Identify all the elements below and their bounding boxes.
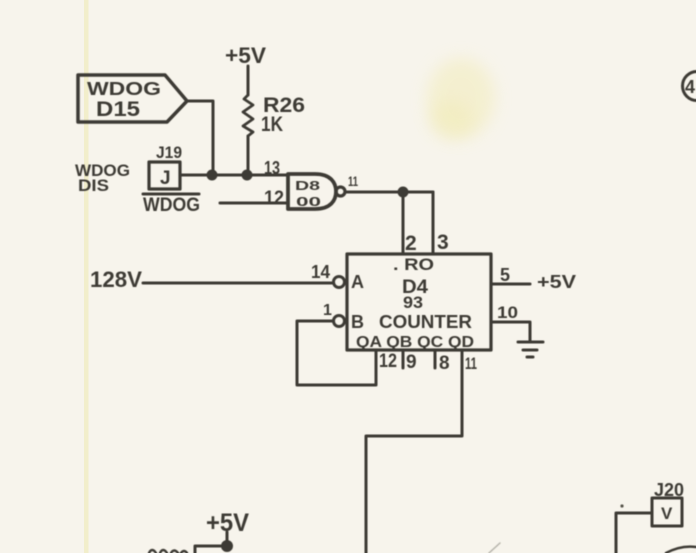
- feedback wire QA to B: [297, 321, 376, 385]
- pin 9 tick: [402, 350, 405, 368]
- wire NAND pin12 input: [220, 202, 288, 205]
- pin 8 tick: [434, 350, 437, 368]
- svg-text:2: 2: [405, 232, 417, 255]
- wire to pin3: [432, 192, 435, 254]
- wire flag point to corner: [187, 101, 213, 175]
- counter D4 box: [347, 254, 491, 350]
- svg-text:DIS: DIS: [78, 176, 109, 195]
- svg-text:9: 9: [406, 352, 417, 373]
- junction dot A: [208, 171, 216, 179]
- WDOG overline: [143, 193, 199, 196]
- pencil dot near J20: [620, 504, 623, 507]
- wire resistor to junction: [247, 136, 250, 175]
- bottom-left cut marks: [149, 550, 187, 553]
- wire bottom corner: [195, 546, 227, 553]
- wire 128V to pin A: [143, 282, 333, 285]
- svg-text:B: B: [351, 312, 364, 332]
- svg-text:D15: D15: [96, 98, 140, 121]
- svg-text:13: 13: [264, 158, 280, 178]
- +5V bottom stub: [226, 532, 229, 546]
- svg-text:4: 4: [685, 77, 695, 97]
- svg-text:128V: 128V: [90, 267, 142, 292]
- svg-text:3: 3: [437, 231, 449, 254]
- svg-text:10: 10: [497, 303, 518, 322]
- svg-text:V: V: [661, 504, 673, 523]
- resistor R26: [243, 95, 253, 136]
- svg-text:+5V: +5V: [537, 272, 576, 292]
- sheet reference circle 4: [683, 72, 696, 101]
- svg-text:93: 93: [403, 293, 423, 312]
- svg-text:+5V: +5V: [206, 509, 249, 537]
- junction dot B: [243, 171, 251, 179]
- svg-text:00: 00: [296, 194, 321, 209]
- svg-text:1K: 1K: [261, 113, 283, 136]
- bottom-right arc fragment: [666, 547, 696, 553]
- pencil diagonal fragment: [489, 543, 500, 553]
- svg-text:11: 11: [348, 173, 358, 189]
- pin A input bubble: [334, 277, 345, 288]
- wire J20 down: [616, 513, 652, 553]
- svg-text:. RO: . RO: [393, 255, 434, 274]
- junction dot output: [399, 188, 407, 196]
- nand output bubble: [336, 187, 345, 196]
- svg-text:D8: D8: [295, 178, 320, 193]
- svg-text:J: J: [160, 168, 171, 189]
- J19 connector box: [149, 162, 180, 189]
- svg-text:11: 11: [465, 354, 477, 373]
- nand gate D8 body: [288, 174, 336, 209]
- svg-text:1: 1: [323, 302, 332, 319]
- svg-text:J19: J19: [156, 143, 182, 162]
- J20 connector box: [652, 498, 682, 526]
- svg-text:12: 12: [264, 188, 284, 209]
- svg-text:A: A: [351, 272, 364, 292]
- pin B input bubble: [334, 316, 345, 327]
- svg-text:14: 14: [311, 262, 330, 282]
- junction dot bottom: [223, 542, 232, 551]
- svg-text:WDOG: WDOG: [143, 195, 200, 216]
- +5V stub top: [247, 66, 250, 95]
- svg-text:COUNTER: COUNTER: [379, 312, 472, 332]
- svg-text:8: 8: [439, 353, 450, 374]
- wire QD pin11 down: [366, 350, 462, 553]
- paper stain: [427, 58, 495, 138]
- flag WDOG D15: [78, 75, 187, 122]
- ground symbol: [518, 341, 543, 344]
- wire to pin2: [402, 192, 405, 254]
- svg-text:QA QB QC QD: QA QB QC QD: [356, 334, 474, 351]
- wire J box to NAND pin13: [180, 174, 288, 177]
- paper yellow crease line: [84, 0, 89, 553]
- svg-text:J20: J20: [654, 480, 684, 500]
- svg-text:5: 5: [500, 265, 510, 285]
- wire pin10 to ground: [491, 322, 530, 341]
- wire NAND output: [345, 191, 433, 194]
- wire pin5 to +5V: [491, 283, 530, 286]
- svg-text:12: 12: [379, 351, 397, 372]
- svg-text:+5V: +5V: [225, 43, 266, 68]
- svg-text:WDOG: WDOG: [87, 79, 161, 99]
